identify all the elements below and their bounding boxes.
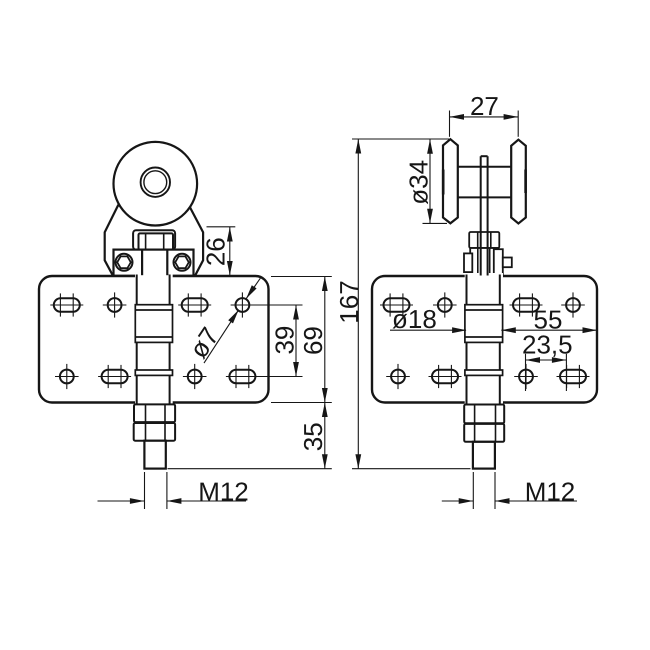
slot hole row1 col3 (side): [513, 298, 539, 311]
clamp bolt head (side): [503, 258, 512, 268]
round hole row2 col3 (side): [519, 370, 533, 384]
slot hole row1 col1 (side): [384, 298, 410, 311]
axle nut (side view): [469, 232, 499, 248]
svg-text:ø18: ø18: [392, 304, 437, 334]
svg-text:35: 35: [298, 422, 328, 451]
clamp bolt left: [116, 254, 133, 271]
dia34 bottom extension line: [423, 222, 448, 224]
dim 27 line: [450, 116, 519, 118]
dim 55 line: [501, 329, 597, 331]
strap clamp side block: [470, 248, 498, 276]
dim 27 extension lines: [449, 111, 451, 137]
plate top extension line: [271, 276, 332, 278]
rod bottom extension line: [168, 468, 332, 470]
round hole row2 col1: [60, 370, 74, 384]
lock nut lower (side): [464, 424, 504, 442]
svg-text:26: 26: [201, 237, 231, 266]
svg-text:27: 27: [470, 91, 499, 121]
slot hole row1 col1: [54, 298, 80, 311]
dia7 leader lower segment: [204, 310, 239, 363]
dim 26 extension line: [207, 226, 236, 228]
slot hole row1 col3: [182, 298, 208, 311]
svg-text:M12: M12: [525, 476, 576, 506]
roller wheel (front view): [114, 142, 198, 226]
clamp right flange (side): [494, 249, 503, 274]
dim 23,5 extension lines: [525, 354, 527, 391]
slot hole row2 col2: [102, 370, 128, 383]
dia34 dim line: [429, 139, 431, 223]
M12 left extension lines: [144, 472, 146, 509]
dim 35 line: [324, 403, 326, 469]
strap tooth block (front view): [135, 305, 172, 343]
round hole row2 col3: [188, 370, 202, 384]
strap tooth block (side view): [465, 305, 503, 343]
dim 69 line: [324, 277, 326, 403]
plate bottom extension line: [271, 402, 332, 404]
clamp left flange (side): [464, 253, 472, 272]
lock nut upper (front): [134, 404, 175, 422]
left wheel groove edge: [442, 170, 445, 195]
M12 right extension lines: [472, 472, 474, 509]
right wheel (side view): [511, 140, 526, 224]
svg-text:M12: M12: [198, 476, 249, 506]
strap notch band (front view): [135, 370, 172, 375]
dim 167 top extension line: [352, 138, 449, 140]
round hole row1 col2 (side): [438, 298, 452, 312]
hole row2 extension line: [232, 376, 303, 378]
clamp bar: [114, 250, 194, 276]
round hole row1 col4 (side): [566, 298, 580, 312]
slot hole row2 col4 (side): [560, 370, 586, 383]
left wheel (side view): [443, 139, 458, 223]
roller bracket plate (front view): [105, 206, 203, 276]
round hole row1 col2: [108, 298, 122, 312]
M12 left dim arrows: [98, 500, 145, 502]
wheel hub top line: [458, 166, 511, 168]
slot hole row2 col4: [229, 370, 255, 383]
dim 167 line: [357, 139, 359, 469]
wheel hub outer ring: [141, 168, 170, 197]
lock nut upper (side): [464, 405, 504, 424]
round hole row1 col4: [236, 298, 250, 312]
dim 23,5 line: [526, 359, 567, 361]
round hole row2 col1 (side): [391, 370, 405, 384]
wheel hub bottom line: [458, 196, 511, 198]
hanger strap bar (front view): [135, 273, 173, 405]
axle hex nut (front): [139, 233, 174, 249]
right wheel groove edge: [524, 170, 527, 194]
lock nut lower (front): [134, 423, 175, 441]
slot hole row2 col2 (side): [432, 370, 458, 383]
mounting plate (front view): [39, 276, 269, 403]
svg-text:167: 167: [334, 280, 364, 323]
dim 167 bottom extension line: [352, 468, 471, 470]
svg-text:ø34: ø34: [404, 160, 434, 205]
threaded rod M12 (side): [473, 442, 495, 469]
dim 39 line: [295, 305, 297, 377]
dia18 leader line: [390, 329, 466, 331]
threaded rod M12 (front): [144, 441, 165, 469]
hanger strap upper bar: [480, 156, 482, 275]
strap notch band (side view): [465, 370, 503, 375]
svg-text:23,5: 23,5: [522, 330, 573, 360]
svg-text:69: 69: [298, 326, 328, 355]
M12 right dim arrows: [442, 500, 473, 502]
dim 26 line: [229, 227, 231, 276]
dia7 leader upper segment: [246, 278, 261, 299]
bolt shank sides in clamp: [141, 250, 143, 276]
hole row1 extension line: [232, 304, 303, 306]
clamp bolt right: [174, 254, 191, 271]
hanger strap bar (side view): [465, 273, 503, 405]
washer plate under wheel: [133, 230, 175, 249]
mounting plate (side view): [372, 276, 597, 403]
svg-text:39: 39: [270, 326, 300, 355]
wheel hub bore: [144, 171, 167, 194]
